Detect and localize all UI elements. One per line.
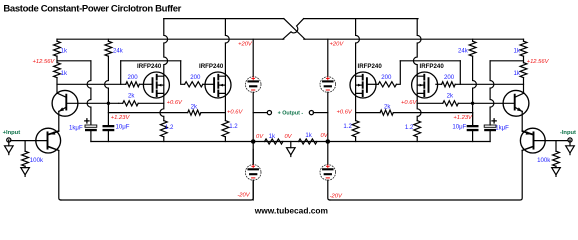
wire right fb line: [356, 112, 381, 114]
resistor R6 1.2: [160, 121, 167, 137]
svg-text:200: 200: [190, 74, 201, 81]
wire B4 top: [327, 142, 329, 165]
svg-text:200: 200: [444, 74, 455, 81]
node dot B2-rail: [326, 140, 329, 143]
terminal output+: [267, 111, 271, 115]
wire C2 bottom: [107, 131, 109, 141]
wire M2 source column: [224, 93, 226, 120]
wire crossover descending: [284, 19, 305, 40]
ground input: [8, 141, 10, 146]
wire R16 to M4 gate: [436, 83, 442, 85]
mosfet M4 IRFP240: [412, 72, 438, 98]
svg-text:Bastode Constant-Power Circlot: Bastode Constant-Power Circlotron Buffer: [3, 3, 181, 14]
battery B1 +20V: [245, 77, 261, 93]
transistor Q1: [52, 90, 78, 116]
svg-text:+0.6V: +0.6V: [227, 110, 243, 116]
resistor R20 1k: [520, 41, 527, 56]
svg-text:1.2: 1.2: [229, 123, 238, 130]
resistor R16 200: [442, 82, 456, 87]
battery B3 -20V: [245, 165, 261, 181]
wire C4 bottom: [489, 131, 491, 141]
svg-text:+1.23V: +1.23V: [453, 115, 473, 121]
wire V2p column with hops: [490, 61, 494, 125]
svg-text:+ Output -: + Output -: [278, 110, 304, 116]
wire Q4 collector down: [522, 147, 532, 151]
resistor R9 2k: [188, 110, 201, 115]
svg-text:1.2: 1.2: [405, 124, 414, 131]
wire R21 to Q1p collector: [523, 78, 525, 94]
svg-text:10μF: 10μF: [116, 123, 130, 130]
wire V3 column lower: [107, 103, 109, 125]
terminal +Input: [7, 138, 11, 142]
svg-text:IRFP240: IRFP240: [420, 63, 445, 70]
wire M1 drain column: [164, 19, 168, 77]
wire 1k column top: [56, 39, 58, 41]
wire 100k top: [24, 141, 26, 152]
transistor Q3: [503, 90, 529, 116]
svg-text:1k: 1k: [513, 48, 520, 55]
svg-text:+0.6V: +0.6V: [401, 100, 417, 106]
capacitor C1 1kuF: [85, 125, 97, 127]
svg-text:IRFP240: IRFP240: [358, 63, 383, 70]
wire gate rail: [57, 83, 126, 85]
svg-text:24k: 24k: [113, 48, 124, 55]
wire 1k column top right: [523, 39, 525, 41]
resistor R5 200: [185, 82, 203, 87]
wire 200 to gate M2: [203, 83, 214, 85]
wire fb to V3p: [393, 112, 472, 114]
wire R15 to rail: [416, 137, 418, 142]
resistor R10 100k: [22, 151, 29, 166]
svg-text:2k: 2k: [191, 104, 198, 111]
svg-text:-20V: -20V: [330, 194, 343, 200]
capacitor C2 10uF: [103, 125, 115, 127]
wire V2 column with hops: [87, 61, 91, 125]
wire output+ tap: [253, 112, 267, 114]
wire C3 top: [472, 113, 474, 125]
transistor Q4: [520, 128, 545, 153]
resistor R1 1k: [54, 41, 61, 56]
polarity + C4: [492, 119, 496, 123]
svg-text:100k: 100k: [30, 157, 44, 164]
ground right input: [569, 141, 571, 146]
wire crossover ascending with hop: [283, 19, 304, 40]
mosfet M2 IRFP240: [205, 72, 231, 98]
wire V3 column upper: [105, 56, 109, 103]
wire right V5 riser: [459, 61, 461, 85]
wire right top rail: [304, 18, 418, 20]
wire M3 drain column: [356, 19, 360, 77]
transistor Q2: [36, 128, 61, 153]
wire R6 to rail: [163, 137, 165, 142]
svg-text:100k: 100k: [537, 157, 551, 164]
svg-text:+0.6V: +0.6V: [167, 100, 183, 106]
svg-text:1k: 1k: [61, 70, 68, 77]
wire input to Q2 base: [11, 140, 47, 142]
resistor R13 1.2: [352, 121, 359, 137]
svg-text:IRFP240: IRFP240: [199, 63, 224, 70]
wire node right: [490, 56, 523, 62]
resistor R11 1k: [265, 139, 284, 144]
svg-text:24k: 24k: [458, 48, 469, 55]
resistor R15 1.2: [414, 121, 421, 137]
resistor R8 2k: [123, 101, 139, 106]
svg-text:1k: 1k: [305, 132, 312, 139]
wire C1 bottom: [90, 131, 92, 141]
svg-text:-Input: -Input: [560, 130, 576, 136]
wire Q3 emitter to Q4: [522, 111, 532, 134]
wire center rail: [91, 141, 490, 143]
wire V3p upper: [473, 56, 477, 103]
node dot V3p-base: [471, 102, 474, 105]
svg-text:+12.56V: +12.56V: [527, 59, 550, 65]
wire R2 to gate rail and Q1 collector: [56, 78, 58, 94]
resistor R22 100k: [553, 151, 560, 166]
resistor R4 200: [126, 82, 140, 87]
svg-text:-20V: -20V: [237, 193, 250, 199]
wire R7 to rail: [224, 137, 226, 142]
svg-text:1k: 1k: [269, 133, 276, 140]
wire M4 source column: [417, 93, 421, 120]
ground right 100k: [555, 166, 557, 167]
svg-text:0V: 0V: [284, 134, 292, 140]
wire M3 gate: [367, 83, 378, 85]
svg-text:IRFP240: IRFP240: [137, 63, 162, 70]
svg-text:+1.23V: +1.23V: [111, 115, 131, 121]
wire B2 to output node: [327, 92, 329, 141]
svg-text:+20V: +20V: [238, 42, 253, 48]
svg-text:1.2: 1.2: [165, 124, 174, 131]
svg-text:+Input: +Input: [3, 130, 21, 136]
wire B1b top: [252, 142, 254, 165]
wire M4 drain column: [413, 19, 421, 77]
wire right supply column: [327, 39, 329, 76]
resistor R17 2k: [443, 101, 459, 106]
svg-text:2k: 2k: [447, 93, 454, 100]
polarity + C1: [85, 119, 89, 123]
wire M3 source column: [355, 93, 357, 120]
wire 100k right top: [555, 141, 557, 152]
resistor R12 1k: [299, 139, 318, 144]
wire bottom right rail: [330, 150, 522, 200]
svg-text:+20V: +20V: [330, 42, 345, 48]
ground center: [290, 142, 292, 148]
resistor R2 1k: [54, 63, 61, 78]
terminal output-: [309, 111, 313, 115]
svg-text:10μF: 10μF: [452, 123, 466, 130]
svg-text:1kμF: 1kμF: [495, 125, 509, 132]
wire Q4 base to input: [534, 140, 568, 142]
svg-text:2k: 2k: [128, 93, 135, 100]
battery B4 -20V: [320, 165, 336, 181]
wire M2 drain column: [225, 19, 229, 77]
wire R14 corner up: [396, 61, 400, 85]
wire node to R2: [56, 56, 58, 62]
terminal -Input: [568, 138, 572, 142]
svg-text:200: 200: [381, 74, 392, 81]
wire B1 to output node: [252, 92, 254, 141]
wire B3 bottom corner: [252, 180, 254, 200]
svg-text:0V: 0V: [256, 134, 264, 140]
wire 200 to gate: [139, 83, 152, 85]
wire +12.56V node: [57, 60, 91, 62]
wire R13 to rail: [355, 137, 357, 142]
resistor R3 24k: [107, 39, 109, 41]
wire right gate rail: [455, 83, 523, 85]
wire fb line left: [108, 112, 187, 114]
ground 100k: [24, 166, 26, 167]
wire Q1 base line: [67, 102, 119, 104]
resistor R21 1k: [520, 63, 527, 78]
node dot B1-rail: [252, 140, 255, 143]
wire right B+ rail: [304, 38, 524, 40]
wire Q1 emitter to Q2: [49, 111, 59, 134]
svg-text:www.tubecad.com: www.tubecad.com: [254, 206, 328, 216]
wire Q2 collector down: [49, 147, 61, 200]
wire 2k to source col: [119, 102, 164, 104]
svg-text:200: 200: [128, 74, 139, 81]
resistor R18 2k: [380, 110, 393, 115]
wire 2k to Q1p base: [458, 102, 514, 104]
wire right gate feed: [400, 60, 460, 62]
svg-text:1k: 1k: [61, 48, 68, 55]
wire V5 riser: [120, 61, 122, 85]
battery B2 +20V: [320, 77, 336, 93]
capacitor C4 1kuF: [484, 125, 496, 127]
svg-text:2k: 2k: [384, 104, 391, 111]
wire bottom left rail: [61, 149, 253, 200]
wire left top rail: [164, 18, 284, 20]
wire B4 bottom: [328, 180, 330, 200]
wire gate feed line with hop: [121, 60, 181, 62]
svg-text:1.2: 1.2: [343, 123, 352, 130]
svg-text:1kμF: 1kμF: [69, 125, 83, 132]
wire corner to M2 gate: [181, 61, 185, 85]
wire C3 bottom: [472, 131, 474, 141]
mosfet M1 IRFP240: [143, 72, 169, 98]
svg-text:+0.6V: +0.6V: [336, 110, 352, 116]
svg-text:1k: 1k: [513, 70, 520, 77]
node dot V3-base: [107, 102, 110, 105]
svg-text:+12.56V: +12.56V: [33, 59, 56, 65]
resistor R19 24k: [472, 39, 474, 41]
wire output- tap: [313, 112, 328, 114]
wire M1 source column: [160, 93, 164, 120]
wire left supply column: [252, 39, 254, 76]
resistor R14 200: [378, 82, 396, 87]
resistor R7 1.2: [222, 121, 229, 137]
capacitor C3 10uF: [467, 125, 479, 127]
wire right base line: [417, 102, 443, 104]
wire fb line to M2 source: [201, 112, 226, 114]
mosfet M3 IRFP240: [350, 72, 376, 98]
wire left B+ rail: [57, 38, 284, 40]
wire V3p lower: [472, 103, 474, 125]
